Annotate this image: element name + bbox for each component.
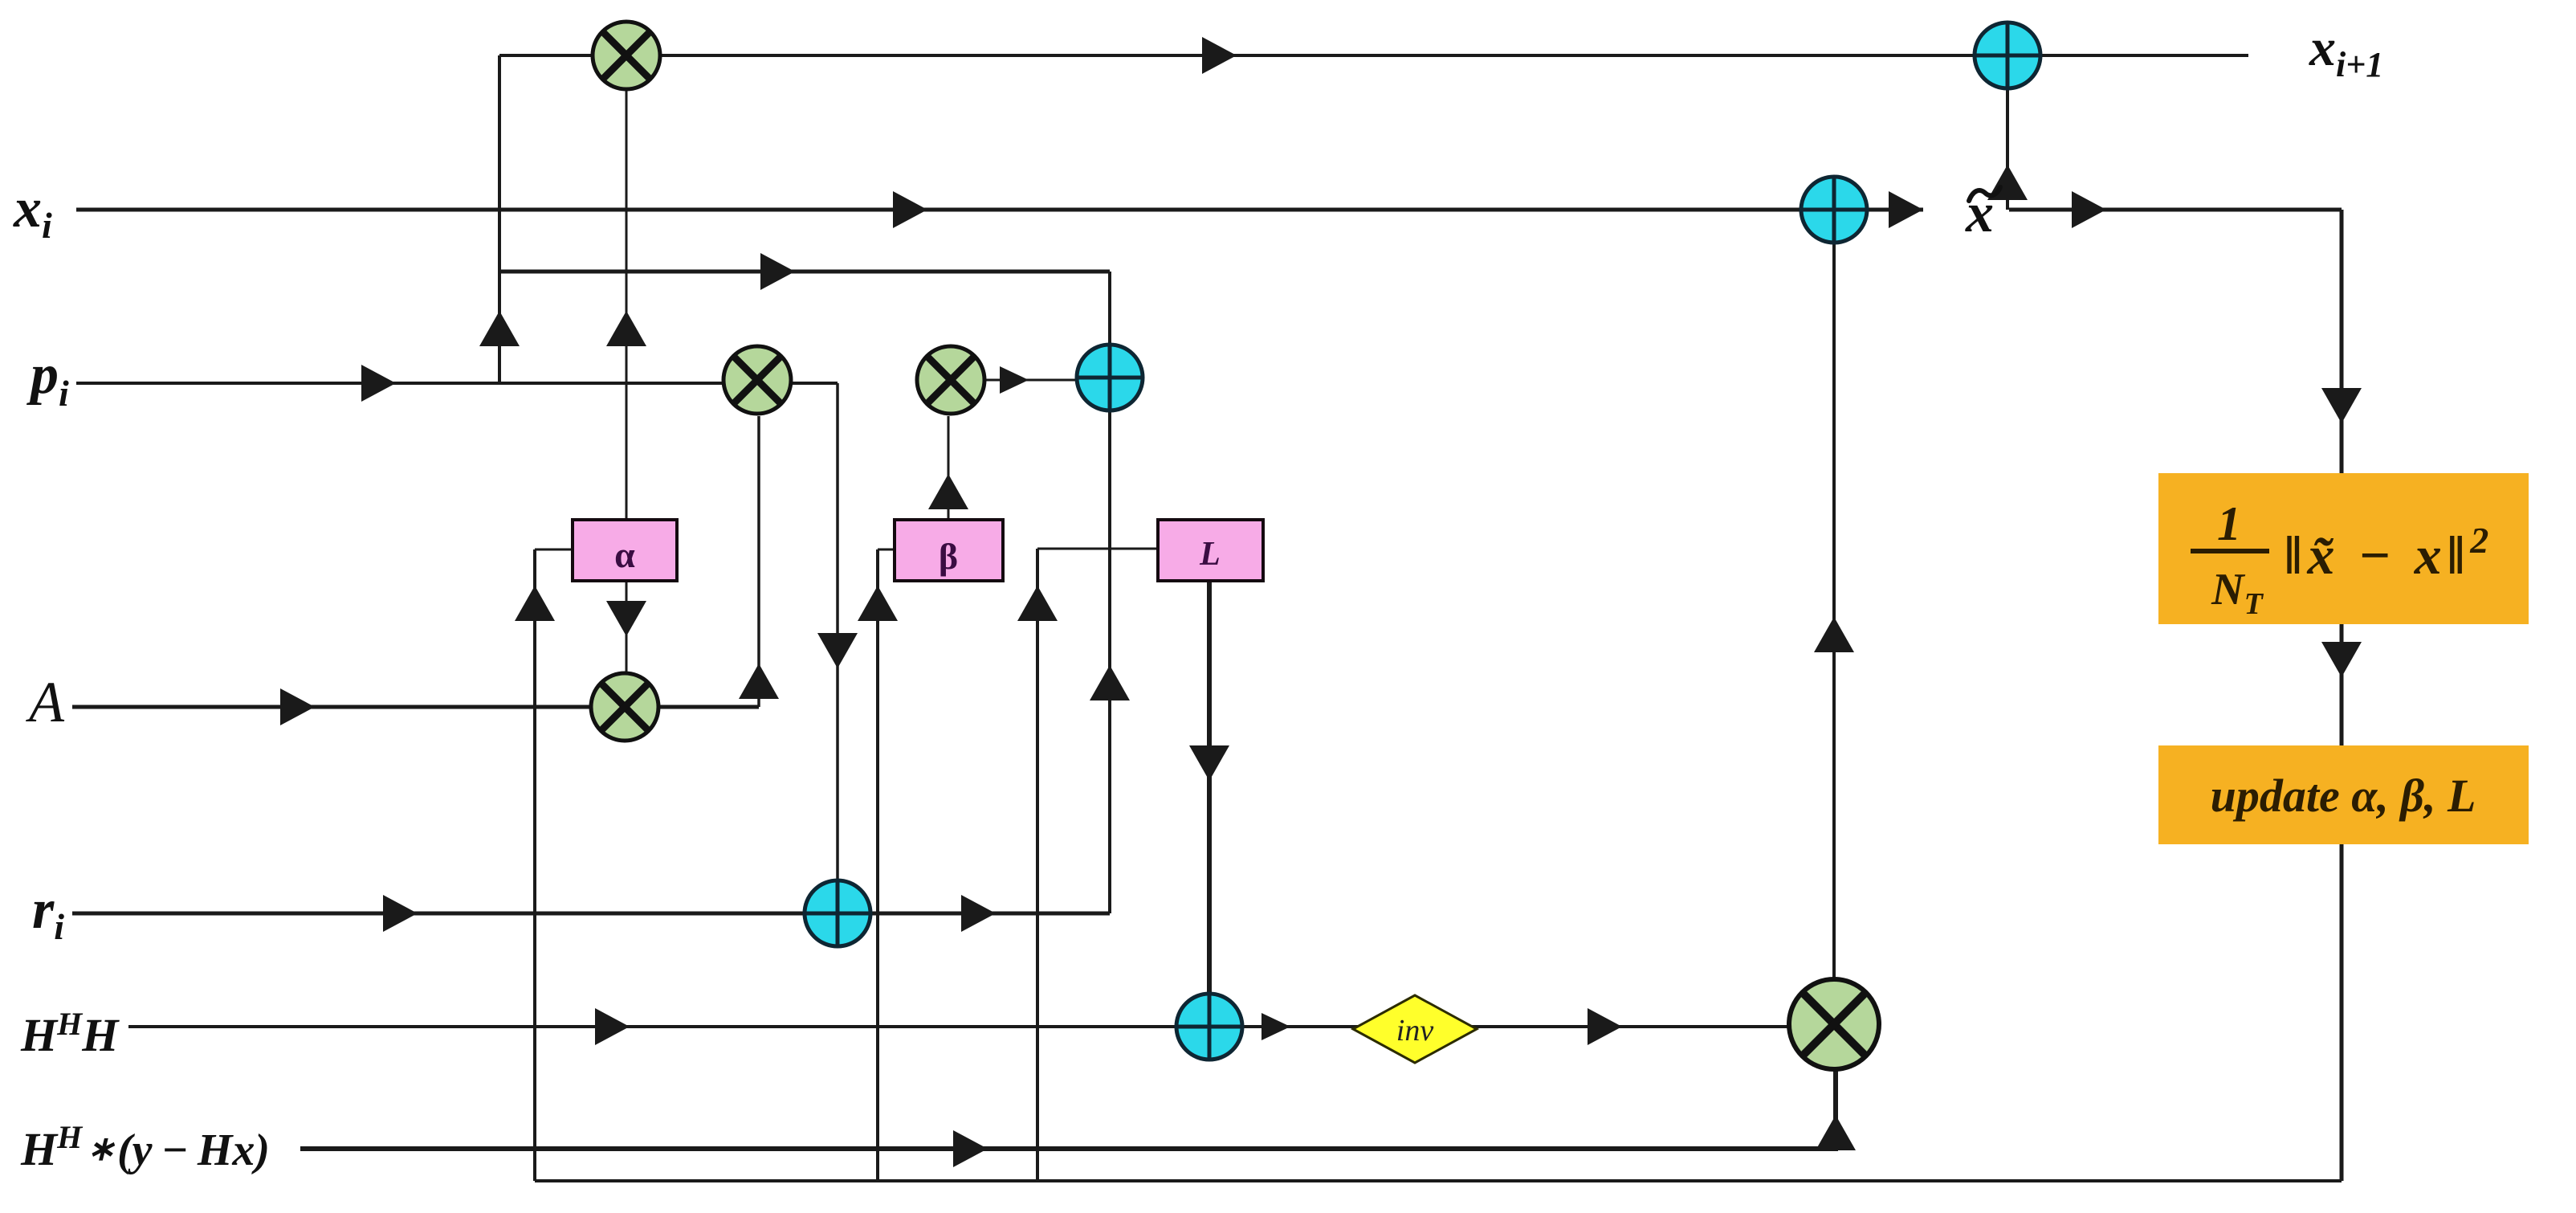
svg-text:inv: inv xyxy=(1396,1014,1434,1048)
svg-text:∗: ∗ xyxy=(87,1131,116,1168)
svg-text:update α, β, L: update α, β, L xyxy=(2211,770,2476,822)
svg-text:L: L xyxy=(1199,536,1221,573)
svg-text:(y − Hx): (y − Hx) xyxy=(117,1125,270,1175)
svg-text:‖x̃ − x‖2: ‖x̃ − x‖2 xyxy=(2284,520,2493,586)
svg-text:α: α xyxy=(614,534,635,575)
svg-text:HHH: HHH xyxy=(20,1006,120,1061)
svg-text:A: A xyxy=(26,670,65,734)
svg-text:β: β xyxy=(939,536,958,577)
svg-text:1: 1 xyxy=(2217,497,2241,550)
svg-text:HH: HH xyxy=(20,1119,84,1175)
svg-text:xi: xi xyxy=(13,178,52,246)
svg-text:ri: ri xyxy=(32,879,64,947)
svg-text:xi+1: xi+1 xyxy=(2309,18,2383,84)
svg-text:pi: pi xyxy=(26,344,69,414)
